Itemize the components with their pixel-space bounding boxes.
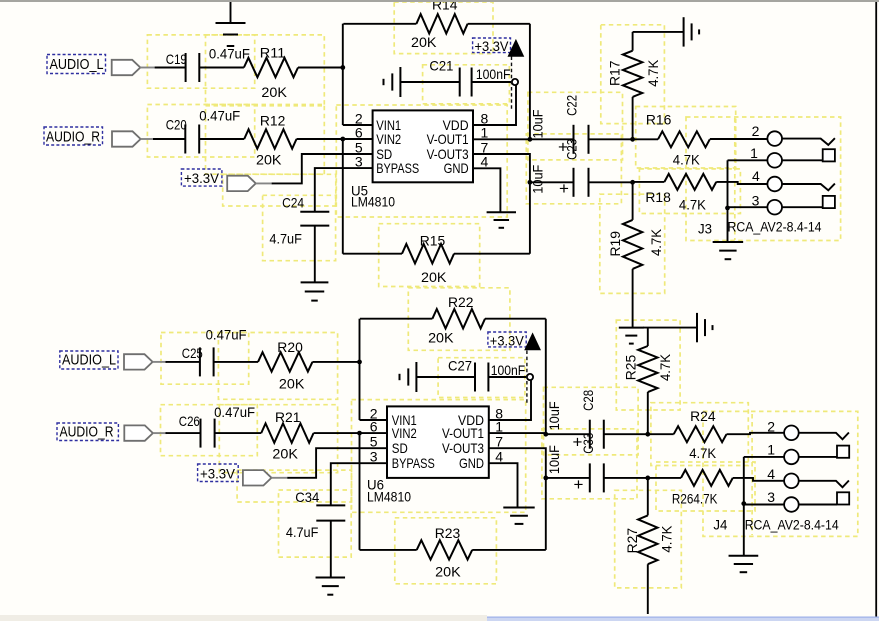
resistor R15	[402, 244, 454, 263]
wire	[314, 226, 316, 283]
svg-text:R23: R23	[435, 525, 461, 541]
svg-text:C27: C27	[448, 358, 472, 374]
selection box C25	[161, 333, 249, 385]
wire	[342, 139, 344, 254]
net label box AUDIO_L	[47, 55, 106, 74]
svg-text:AUDIO_L: AUDIO_L	[50, 56, 104, 73]
wire	[166, 432, 201, 434]
svg-text:4.7K: 4.7K	[648, 228, 664, 256]
wire	[710, 138, 768, 140]
wire GND pin4 (U6)	[489, 463, 518, 507]
ground (top centre)	[216, 23, 246, 46]
svg-text:6: 6	[355, 125, 363, 141]
power label box +3.3V	[181, 169, 222, 186]
svg-text:+3.3V: +3.3V	[184, 170, 220, 186]
selection box R17	[601, 25, 665, 124]
svg-text:RCA_AV2-8.4-14: RCA_AV2-8.4-14	[728, 220, 822, 235]
wire	[545, 319, 547, 435]
resistor R19	[623, 220, 642, 269]
wire	[140, 67, 155, 69]
svg-text:10uF: 10uF	[530, 110, 546, 139]
wire	[342, 24, 344, 125]
wire	[633, 138, 658, 140]
svg-text:6: 6	[370, 419, 378, 435]
svg-text:2: 2	[767, 418, 775, 434]
wire	[632, 97, 634, 139]
resistor R16	[658, 131, 710, 147]
J3 pin 1 contact circle	[767, 153, 782, 168]
selection box R20	[218, 333, 337, 400]
wire	[199, 138, 244, 140]
resistor R22	[432, 309, 485, 328]
svg-text:0.47uF: 0.47uF	[206, 327, 247, 343]
wire	[360, 549, 417, 551]
J4 pin 4 switch contact	[799, 481, 849, 488]
wire	[166, 361, 200, 363]
svg-text:+3.3V: +3.3V	[200, 466, 236, 482]
svg-text:R27: R27	[624, 528, 640, 554]
svg-text:R24: R24	[690, 408, 716, 424]
wire	[359, 319, 361, 420]
wire	[153, 138, 185, 140]
svg-text:+: +	[559, 179, 569, 198]
wire	[633, 31, 684, 33]
op-amp U5 LM4810 body	[373, 110, 473, 182]
wire	[155, 67, 186, 69]
wire	[589, 138, 633, 140]
power label box +3.3V (VDD bottom)	[488, 332, 526, 347]
bottom bar right (scrollbar blue)	[487, 617, 879, 621]
svg-text:20K: 20K	[256, 152, 282, 168]
wire	[743, 457, 745, 556]
svg-text:1: 1	[481, 125, 489, 141]
selection box C28	[544, 387, 639, 455]
selection box U5	[336, 105, 507, 217]
svg-text:10uF: 10uF	[546, 401, 562, 430]
wire	[312, 361, 359, 363]
svg-text:4: 4	[481, 154, 489, 170]
wire	[529, 182, 531, 253]
power port stem (dashed, bottom)	[526, 351, 528, 406]
J3 pin 1 terminal square	[823, 149, 835, 161]
selection box R23	[395, 518, 497, 584]
resistor R24	[674, 426, 727, 442]
junction J3 pins 1-3	[725, 206, 730, 211]
wire	[799, 504, 837, 506]
wire	[153, 432, 167, 434]
junction OUT1/R16/R17	[630, 137, 635, 142]
wire	[648, 433, 674, 435]
sheet border right	[875, 0, 877, 617]
J3 pin 2 switch contact	[782, 138, 835, 145]
svg-text:20K: 20K	[435, 564, 461, 580]
J4 pin 3 terminal square	[837, 492, 849, 504]
svg-text:R19: R19	[607, 231, 623, 257]
wire	[298, 67, 343, 69]
junction OUT1/R14	[528, 137, 533, 142]
wire	[330, 521, 332, 578]
wire	[297, 138, 373, 140]
svg-text:C33: C33	[580, 433, 596, 454]
selection box J4	[703, 411, 858, 536]
svg-text:0.47uF: 0.47uF	[214, 404, 255, 420]
wire BYPASS	[315, 168, 373, 212]
wire	[214, 361, 258, 363]
svg-text:4.7K: 4.7K	[673, 151, 701, 167]
wire	[529, 24, 531, 140]
wire	[782, 206, 823, 208]
wire	[359, 433, 361, 550]
svg-text:R21: R21	[275, 409, 301, 425]
ground (R17 top)	[684, 17, 700, 46]
power symbol +3.3V triangle (bottom)	[525, 334, 540, 350]
svg-text:V-OUT1: V-OUT1	[442, 425, 484, 441]
wire	[416, 376, 475, 378]
wire	[632, 32, 634, 51]
op-amp U6 LM4810 body	[387, 406, 489, 478]
junction OUT1/R24/R25	[645, 432, 650, 437]
svg-text:VIN2: VIN2	[376, 131, 401, 147]
svg-text:AUDIO_R: AUDIO_R	[46, 129, 100, 146]
svg-text:10uF: 10uF	[530, 165, 546, 194]
selection box R14	[394, 2, 493, 54]
svg-text:4.7K: 4.7K	[659, 525, 675, 553]
wire	[343, 253, 402, 255]
resistor R21	[261, 423, 313, 442]
svg-text:0.47uF: 0.47uF	[209, 46, 250, 62]
wire VDD (U6)	[489, 380, 531, 420]
selection box R25	[616, 320, 680, 410]
J4 pin 2 contact circle	[784, 426, 799, 441]
svg-text:4: 4	[767, 466, 775, 482]
capacitor C20	[185, 125, 199, 154]
junction J4 pins 1-3	[741, 501, 746, 506]
net label box AUDIO_R (bottom)	[57, 423, 118, 441]
junction node VIN1	[340, 65, 345, 70]
svg-text:+3.3V: +3.3V	[475, 38, 510, 54]
capacitor C24	[300, 212, 329, 226]
svg-text:R12: R12	[260, 113, 286, 129]
wire	[530, 138, 574, 140]
J4 pin 3 contact circle	[784, 497, 799, 512]
wire VDD	[473, 85, 516, 125]
wire	[782, 159, 823, 161]
capacitor C23 (polarized)	[574, 168, 589, 197]
ground (U5 pin 4)	[487, 212, 516, 228]
selection box R21	[219, 405, 337, 473]
svg-text:R17: R17	[607, 60, 623, 86]
wire V-OUT3	[473, 154, 530, 182]
svg-text:5: 5	[370, 434, 378, 450]
net label box AUDIO_L (bottom)	[60, 351, 118, 369]
selection box R12	[206, 105, 325, 175]
input port flag AUDIO_L (bottom)	[124, 354, 153, 369]
svg-text:0.47uF: 0.47uF	[199, 108, 240, 124]
junction node VIN2 (U6)	[357, 431, 362, 436]
svg-text:C28: C28	[580, 390, 596, 411]
svg-text:GND: GND	[444, 160, 469, 176]
wire	[530, 181, 574, 183]
svg-text:7: 7	[495, 434, 503, 450]
selection box R22	[408, 288, 510, 351]
resistor R20	[258, 352, 312, 371]
svg-text:C20: C20	[166, 117, 187, 133]
wire	[647, 328, 649, 346]
svg-text:BYPASS: BYPASS	[376, 160, 419, 176]
selection box R16	[636, 107, 736, 169]
wire	[716, 182, 767, 184]
wire	[545, 478, 547, 550]
J4 pin 4 contact circle	[784, 474, 799, 489]
wire	[215, 432, 262, 434]
selection box C24	[263, 195, 336, 260]
J3 pin 3 terminal square	[823, 196, 835, 208]
junction node VIN2	[340, 137, 345, 142]
wire	[485, 318, 546, 320]
svg-text:BYPASS: BYPASS	[392, 455, 435, 471]
wire	[647, 564, 649, 614]
ground (C24)	[301, 282, 329, 300]
wire	[647, 478, 649, 516]
selection box +3.3V flag bottom	[237, 470, 351, 502]
svg-text:4: 4	[752, 168, 760, 184]
wire	[728, 159, 768, 161]
wire pin2 (U6)	[360, 419, 388, 421]
ground (C21 left)	[384, 67, 401, 97]
junction OUT3/R23	[543, 476, 548, 481]
wire SD	[272, 154, 373, 183]
svg-text:4.7uF: 4.7uF	[286, 524, 319, 540]
svg-text:R16: R16	[646, 111, 672, 127]
wire	[728, 206, 768, 208]
power port flag +3.3V (bottom)	[243, 470, 272, 485]
wire	[230, 0, 232, 23]
selection box +3.3V flag top	[223, 174, 336, 206]
ground (J3)	[713, 242, 744, 259]
power port stem (dashed)	[511, 57, 513, 112]
wire V-OUT1 (U6)	[489, 432, 546, 434]
capacitor C22 (polarized)	[574, 125, 589, 154]
svg-text:100nF: 100nF	[491, 362, 526, 378]
wire	[647, 392, 649, 434]
wire	[343, 23, 416, 25]
selection box C34	[279, 490, 352, 557]
svg-text:J3: J3	[698, 221, 712, 237]
selection box C22	[528, 92, 623, 160]
selection box C26	[161, 405, 258, 456]
wire	[546, 477, 590, 479]
input port flag AUDIO_L	[112, 60, 141, 75]
wire	[454, 253, 530, 255]
wire GND pin4	[473, 168, 500, 212]
svg-text:V-OUT1: V-OUT1	[427, 131, 469, 147]
svg-text:LM4810: LM4810	[367, 489, 411, 505]
junction OUT1/R22	[543, 432, 548, 437]
wire V-OUT3 (U6)	[489, 448, 546, 478]
input port flag AUDIO_R (bottom)	[124, 425, 153, 440]
J4 pin 1 contact circle	[784, 450, 799, 465]
svg-text:J4: J4	[713, 517, 727, 533]
wire	[546, 433, 590, 435]
svg-text:C19: C19	[166, 51, 187, 67]
svg-text:C22: C22	[564, 95, 580, 116]
svg-text:20K: 20K	[272, 446, 298, 462]
svg-text:1: 1	[767, 442, 775, 458]
ground (C34)	[316, 578, 346, 595]
wire	[360, 318, 433, 320]
wire	[256, 182, 273, 184]
net label box AUDIO_R	[44, 127, 103, 145]
ground (R25 top)	[697, 313, 713, 342]
svg-text:4.7K: 4.7K	[657, 353, 673, 381]
svg-text:AUDIO_L: AUDIO_L	[62, 352, 116, 369]
svg-text:GND: GND	[459, 455, 484, 471]
capacitor C33 (polarized)	[590, 463, 604, 492]
selection box R24	[651, 403, 748, 466]
svg-text:20K: 20K	[279, 376, 305, 392]
wire	[468, 23, 530, 25]
resistor R17	[623, 51, 642, 97]
wire V-OUT1	[473, 138, 530, 140]
wire	[648, 477, 681, 479]
svg-text:3: 3	[355, 154, 363, 170]
wire SD (U6)	[287, 448, 387, 478]
svg-text:C24: C24	[282, 195, 304, 211]
capacitor C25	[200, 347, 214, 376]
svg-text:100nF: 100nF	[476, 66, 511, 82]
wire	[604, 477, 648, 479]
power symbol +3.3V triangle	[508, 40, 523, 56]
wire	[472, 549, 546, 551]
wire	[400, 81, 459, 83]
selection box U6	[352, 400, 526, 513]
svg-text:20K: 20K	[261, 84, 287, 100]
J3 pin 4 contact circle	[767, 177, 782, 192]
capacitor C28 (polarized)	[590, 420, 604, 449]
svg-text:VIN2: VIN2	[392, 425, 417, 441]
ground (U6 pin 4)	[503, 508, 534, 524]
wire	[643, 327, 697, 329]
resistor R11	[244, 58, 298, 77]
svg-text:3: 3	[767, 489, 775, 505]
capacitor C27 / 100nF	[475, 363, 488, 392]
wire	[633, 181, 665, 183]
junction OUT3/R15	[528, 180, 533, 185]
wire	[727, 160, 729, 242]
capacitor C19	[186, 53, 200, 82]
selection box R15	[379, 224, 480, 287]
selection box C27	[438, 358, 525, 398]
svg-text:R18: R18	[645, 189, 671, 205]
ground (J4)	[729, 556, 759, 572]
svg-text:C26: C26	[179, 413, 200, 429]
bottom bar left (beige)	[0, 615, 487, 621]
J3 pin 2 contact circle	[767, 131, 782, 146]
capacitor C34	[316, 505, 345, 520]
selection box J3	[686, 117, 841, 241]
J4 pin 2 switch contact	[799, 433, 849, 440]
power port node circle (bottom)	[527, 374, 533, 380]
selection box C33	[542, 429, 637, 499]
selection box R27	[615, 490, 682, 588]
capacitor C26	[201, 419, 215, 448]
selection box R19	[600, 194, 665, 293]
wire	[632, 182, 634, 220]
svg-text:2: 2	[752, 123, 760, 139]
svg-text:R22: R22	[448, 294, 474, 310]
resistor R12	[244, 129, 296, 148]
svg-text:20K: 20K	[421, 269, 447, 285]
svg-text:4.7K: 4.7K	[645, 59, 661, 87]
svg-text:R11: R11	[260, 45, 286, 61]
svg-text:R264.7K: R264.7K	[672, 490, 718, 506]
svg-text:+: +	[574, 475, 584, 494]
wire	[272, 477, 289, 479]
J3 pin 4 switch contact	[782, 184, 835, 191]
resistor R14	[416, 14, 467, 33]
selection box R18	[639, 169, 740, 214]
selection box C23	[526, 134, 621, 204]
resistor R27	[638, 515, 657, 564]
wire	[632, 269, 634, 328]
power label box +3.3V	[473, 38, 511, 53]
wire	[488, 376, 527, 378]
wire	[744, 504, 784, 506]
window top edge	[0, 0, 879, 2]
svg-text:C21: C21	[429, 58, 453, 74]
selection box C19	[147, 35, 254, 88]
J4 pin 1 terminal square	[837, 446, 849, 458]
junction OUT3/R18/R19	[630, 180, 635, 185]
svg-text:10uF: 10uF	[546, 445, 562, 474]
wire	[604, 433, 648, 435]
svg-text:SD: SD	[392, 440, 408, 456]
resistor R26	[681, 470, 733, 486]
svg-text:R25: R25	[623, 355, 639, 381]
svg-text:4.7K: 4.7K	[689, 445, 717, 461]
wire pin2	[343, 124, 373, 126]
selection box C20	[147, 105, 254, 158]
svg-text:3: 3	[370, 449, 378, 465]
wire BYPASS (U6)	[331, 463, 387, 505]
resistor R25	[638, 346, 657, 392]
ground (R19 bottom)	[619, 328, 644, 344]
wire	[733, 478, 784, 481]
power port node circle	[512, 79, 518, 85]
svg-text:C34: C34	[295, 489, 319, 505]
capacitor C21 / 100nF	[460, 68, 472, 97]
svg-text:4.7uF: 4.7uF	[269, 231, 302, 247]
wire	[141, 138, 154, 140]
ground (C27 left)	[400, 362, 417, 392]
power port flag +3.3V	[227, 176, 256, 191]
power label box +3.3V (bottom)	[198, 464, 239, 482]
svg-text:1: 1	[750, 145, 758, 161]
svg-text:AUDIO_R: AUDIO_R	[60, 424, 114, 441]
svg-text:C23: C23	[564, 139, 580, 160]
wire	[472, 81, 512, 83]
resistor R18	[664, 174, 716, 190]
junction OUT3/R26/R27	[645, 476, 650, 481]
selection box R26	[656, 462, 755, 511]
selection box R11	[206, 35, 325, 106]
svg-text:+3.3V: +3.3V	[490, 332, 525, 348]
svg-text:20K: 20K	[428, 330, 454, 346]
resistor R23	[417, 540, 472, 559]
wire	[314, 432, 388, 434]
svg-text:RCA_AV2-8.4-14: RCA_AV2-8.4-14	[745, 518, 839, 533]
wire	[727, 433, 785, 434]
